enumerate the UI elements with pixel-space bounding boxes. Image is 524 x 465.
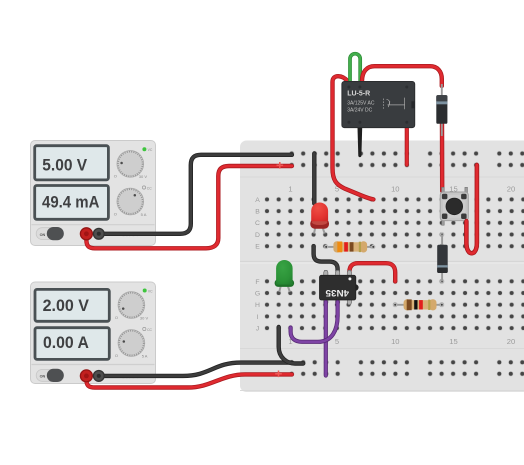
resistor R2 leads [393,303,444,307]
resistor R1 leads [324,245,375,249]
svg-text:3A/24V DC: 3A/24V DC [347,107,372,113]
svg-text:1: 1 [288,184,292,193]
breadboard column labels [288,184,515,346]
svg-text:CC: CC [147,328,152,332]
LED red legs [314,228,325,235]
wire PS2 black to bottom rail row1 [99,363,292,376]
wire black row E to chip pin1 [314,246,338,271]
relay pin black to top rail [358,128,363,158]
breadboard [240,141,524,393]
PS1 CC indicator [142,186,152,190]
svg-text:10: 10 [391,337,399,346]
svg-text:15: 15 [449,337,457,346]
breadboard holes main grid rows F-J [261,276,524,335]
PS1 voltage display 5.00 V [35,146,109,180]
wire black top rail to red LED anode [312,154,316,204]
pushbutton S1 [440,187,468,225]
top rail plus mark [277,162,284,169]
PS2 knob labels [115,315,149,359]
PS2 voltage display 2.00 V [35,289,109,321]
breadboard row labels [255,197,260,333]
svg-text:O: O [114,212,117,217]
svg-text:2.00 V: 2.00 V [43,296,90,315]
optocoupler U1 4N35 [320,270,359,304]
wire purple chip pin2 to row J col2 [291,302,338,342]
svg-text:C: C [255,220,260,227]
svg-text:5 A: 5 A [141,212,147,217]
wire purple chip pin3 to bottom rail row2 [324,302,328,376]
svg-text:D: D [255,232,260,239]
LED red dome [311,202,328,221]
breadboard holes main grid rows A-E [261,194,524,253]
PS2 VC indicator [143,289,153,294]
power supply PS1 body [31,141,156,246]
PS1 black terminal [93,228,104,239]
svg-text:H: H [255,302,260,309]
LED green legs [279,287,290,294]
svg-text:LU-5-R: LU-5-R [347,91,370,98]
PS2 CC indicator [143,327,153,331]
svg-text:F: F [255,279,259,286]
svg-text:5.00 V: 5.00 V [42,155,88,174]
wire PS1 red to top rail row2 [86,166,292,248]
svg-text:CC: CC [147,186,152,190]
svg-text:30 V: 30 V [139,174,148,179]
svg-text:20: 20 [507,337,515,346]
PS1 knob labels [114,173,148,217]
PS1 voltage knob [117,151,144,178]
power supply PS2 body [31,282,156,384]
PS2 voltage knob [118,292,145,319]
PS2 current knob [118,330,145,357]
svg-text:E: E [255,244,260,251]
wire red rail to button (over button) [466,165,477,253]
svg-text:O: O [114,173,117,178]
breadboard holes bottom rails [286,357,524,380]
svg-text:10: 10 [391,184,399,193]
svg-text:ON: ON [40,233,46,237]
svg-text:A: A [255,197,260,204]
wire red diode D1 to pushbutton [440,124,445,191]
svg-text:VC: VC [148,148,153,152]
relay pin red wire to top rail row2 [405,128,409,165]
LED green dome [276,260,293,285]
svg-text:4N35: 4N35 [325,288,349,298]
bottom rail plus mark [275,371,282,378]
diode D1 [436,84,447,136]
PS2 ON toggle [36,369,64,382]
PS1 red terminal [80,228,92,240]
svg-text:B: B [255,209,260,216]
svg-text:30 V: 30 V [140,316,149,321]
svg-text:3A/125V AC: 3A/125V AC [347,101,375,107]
svg-text:VC: VC [148,289,153,293]
svg-text:I: I [257,314,259,321]
LED green flange [275,279,295,287]
svg-text:ON: ON [40,375,46,379]
svg-text:20: 20 [507,184,515,193]
wire green jumper on relay [350,54,360,83]
svg-text:49.4 mA: 49.4 mA [42,193,99,212]
svg-text:O: O [115,315,118,320]
diode D2 [437,232,448,283]
svg-text:G: G [255,291,260,298]
resistor R1 body [333,241,367,252]
wire red top rail row2 to pushbutton (U loop) [466,165,477,253]
wire PS1 black to top rail row1 [99,155,292,234]
resistor R2 body [404,299,437,310]
svg-text:0.00 A: 0.00 A [43,333,89,352]
wire PS2 red to bottom rail row2 [86,374,292,387]
LED red flange [310,219,329,229]
wire red chip pin6 to row F col10 [349,263,395,281]
PS2 black terminal [93,371,104,382]
svg-text:J: J [256,326,259,333]
relay LU-5-R [342,82,415,128]
wire red relay coil to row A col8 [333,76,374,199]
PS1 VC indicator [142,147,152,152]
PS1 current display 49.4 mA [35,186,109,220]
PS1 current knob [117,188,144,215]
svg-text:5 A: 5 A [142,354,148,359]
svg-text:5: 5 [335,337,339,346]
svg-text:O: O [115,353,118,358]
wire red relay to diode D1 [362,66,442,86]
PS2 red terminal [80,370,92,382]
PS1 ON toggle [36,227,64,240]
PS2 current display 0.00 A [35,328,109,360]
breadboard holes top rails [286,148,524,171]
wire black row J col1 to bottom rail row1 [279,327,304,364]
